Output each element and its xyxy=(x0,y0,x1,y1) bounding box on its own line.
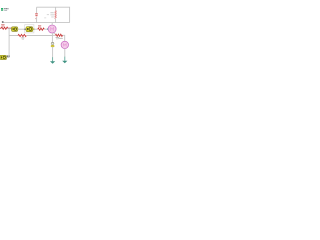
wire R3 run xyxy=(52,35,64,41)
wire LS2 to bus xyxy=(7,56,10,58)
ground arrow 2 xyxy=(62,57,67,64)
resistor R3 xyxy=(55,34,62,36)
node dot box right xyxy=(33,28,35,30)
resistor R2 xyxy=(38,28,45,30)
wire M1 top xyxy=(51,23,53,26)
wire R1 to LS1 xyxy=(8,28,12,30)
wire LS1 to box xyxy=(18,28,25,30)
wire branch R5 xyxy=(55,7,57,22)
resistor R5 xyxy=(55,11,57,19)
motor M2 xyxy=(61,41,68,48)
terminal M1 left xyxy=(47,28,49,30)
speaker LS2 xyxy=(0,55,7,59)
buzzer U1 xyxy=(26,27,34,32)
label R5 xyxy=(50,12,54,17)
wire mid horizontal run xyxy=(9,35,52,37)
label R2 xyxy=(38,25,41,27)
label minus mark xyxy=(54,32,56,35)
logo green icon xyxy=(1,8,3,11)
label text near node xyxy=(44,14,49,18)
wire M1 bottom xyxy=(51,33,53,43)
label M2 xyxy=(58,38,62,39)
label R4 xyxy=(21,37,24,39)
ground arrow 1 xyxy=(50,57,55,64)
wire D1 to ground xyxy=(52,47,54,58)
LED D1 xyxy=(51,43,54,47)
wire box to R2 xyxy=(34,28,38,30)
wire branch C1 xyxy=(36,7,38,22)
motor M1 xyxy=(48,25,56,33)
label R3 xyxy=(56,37,59,39)
label R1 xyxy=(1,24,4,26)
wire middle rail xyxy=(3,22,70,24)
wire R2 to M1 xyxy=(44,28,47,30)
resistor R1 xyxy=(0,27,12,29)
capacitor C1 xyxy=(35,14,38,19)
node junction dot left xyxy=(2,21,4,23)
node dot box left xyxy=(24,28,26,30)
wire vertical left bus xyxy=(8,29,10,58)
selection box U1 xyxy=(25,25,34,33)
wire top rail xyxy=(37,7,70,22)
wire M2 to ground xyxy=(64,49,66,57)
logo title text xyxy=(4,8,8,11)
resistor R4 xyxy=(18,34,26,36)
speaker LS1 xyxy=(11,27,19,32)
label LS2 xyxy=(7,56,10,57)
